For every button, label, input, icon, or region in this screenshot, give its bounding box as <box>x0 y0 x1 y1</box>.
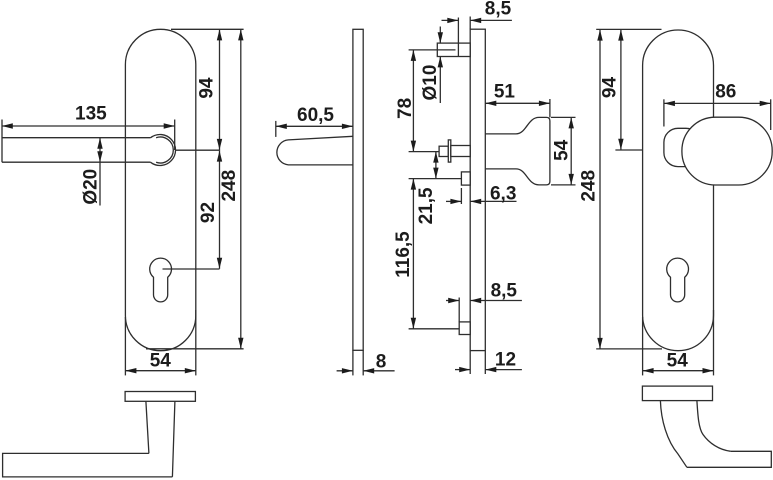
dim 116,5 ext lines <box>409 178 462 180</box>
svg-text:116,5: 116,5 <box>393 231 414 278</box>
dim 8,5 top line <box>442 19 459 21</box>
bottom-right plate edge view <box>642 386 712 401</box>
svg-text:51: 51 <box>494 82 516 103</box>
svg-text:8,5: 8,5 <box>491 281 518 302</box>
dim 6,3 ext <box>460 188 462 204</box>
svg-text:6,3: 6,3 <box>490 184 516 205</box>
view D keyhole <box>667 258 689 302</box>
bottom-right lever grip <box>687 451 771 467</box>
svg-text:54: 54 <box>551 139 572 161</box>
dim 8 ext lines <box>352 350 354 375</box>
dim 94 bottom ext view D <box>615 149 664 151</box>
dim 60,5 line <box>276 125 353 127</box>
bottom-right lever neck <box>660 401 730 468</box>
leader keyhole centre <box>163 268 220 270</box>
dim 6,3 line <box>446 200 461 202</box>
dim 54 line view A <box>125 370 195 372</box>
dim 78 ext lines <box>409 49 456 51</box>
view C spindle shaft <box>451 146 470 157</box>
svg-text:248: 248 <box>219 170 240 202</box>
dim 135 ext right <box>174 120 176 151</box>
view A lever bar <box>2 120 156 163</box>
svg-text:54: 54 <box>667 351 689 372</box>
dim 8 line <box>337 370 353 372</box>
view C middle pin <box>461 172 470 185</box>
svg-text:12: 12 <box>495 350 516 371</box>
view A top extension <box>171 28 244 30</box>
svg-text:60,5: 60,5 <box>297 105 334 126</box>
dim 94 line view A <box>219 29 221 150</box>
dim 12 line <box>455 369 470 371</box>
dim 54 line view D <box>643 370 714 372</box>
dim 21,5 line <box>435 152 437 179</box>
view D backplate (knob, front) <box>643 30 714 351</box>
dim 54 knob line <box>570 117 572 184</box>
view A keyhole <box>150 258 172 302</box>
view C thin plate side view <box>470 29 485 350</box>
dim 248 line view D <box>599 30 601 349</box>
bottom-left plate edge view <box>125 392 195 402</box>
svg-text:248: 248 <box>579 170 600 202</box>
view B thin plate side view <box>353 29 363 350</box>
dim 116,5 line <box>412 179 414 329</box>
view A bottom extension <box>146 348 244 350</box>
svg-text:8: 8 <box>376 352 387 373</box>
view C spindle washer <box>448 140 451 162</box>
leader handle centre <box>176 149 220 151</box>
dim 248 line view A <box>240 29 242 348</box>
view D knob neck bump <box>664 128 700 166</box>
svg-text:54: 54 <box>150 351 172 372</box>
view A backplate (lever handle, front) <box>125 29 195 350</box>
view A lever end cap outer arc <box>151 135 176 166</box>
dim 8,5 bottom line <box>446 300 459 302</box>
view C bottom fixing pin <box>459 322 470 335</box>
dim 54 view D ext lines <box>642 317 644 375</box>
dim O10 line <box>439 27 441 44</box>
dim 8,5 bottom ext <box>458 298 460 322</box>
bottom-left lever neck <box>146 401 175 477</box>
dim 54 knob ext lines <box>551 116 576 118</box>
view C spindle head <box>439 146 448 156</box>
svg-text:8,5: 8,5 <box>485 0 512 20</box>
dim 86 ext lines <box>663 99 665 126</box>
dim 94 line view D <box>620 30 622 150</box>
svg-text:94: 94 <box>197 77 218 99</box>
dim 92 line <box>219 150 221 269</box>
view B lever profile <box>277 136 353 165</box>
svg-text:86: 86 <box>715 82 736 103</box>
svg-text:94: 94 <box>600 77 621 99</box>
svg-text:Ø20: Ø20 <box>81 169 102 205</box>
view A lever end cap inner arc <box>156 137 173 163</box>
svg-text:135: 135 <box>75 104 107 125</box>
dim 51 ext <box>549 99 551 117</box>
dim 86 line <box>664 102 771 104</box>
dim 54 view A ext lines <box>124 317 126 375</box>
svg-text:78: 78 <box>395 98 416 119</box>
dim 135 line <box>2 125 175 127</box>
svg-text:Ø10: Ø10 <box>420 65 441 101</box>
dim 51 line <box>485 102 550 104</box>
dim 60,5 ext <box>275 121 277 137</box>
dim 78 line <box>412 50 414 152</box>
view C knob profile <box>485 117 550 184</box>
svg-text:21,5: 21,5 <box>416 187 437 224</box>
dim 8,5 top ext lines <box>457 18 459 57</box>
view D bottom extension <box>596 348 662 350</box>
view C top fixing pin <box>437 43 470 56</box>
dim 12 ext lines <box>469 351 471 374</box>
view D top extension <box>596 28 661 30</box>
view D knob <box>682 117 772 185</box>
dim O20 line <box>99 138 101 206</box>
svg-text:92: 92 <box>198 202 219 223</box>
bottom-left lever grip <box>3 453 173 477</box>
